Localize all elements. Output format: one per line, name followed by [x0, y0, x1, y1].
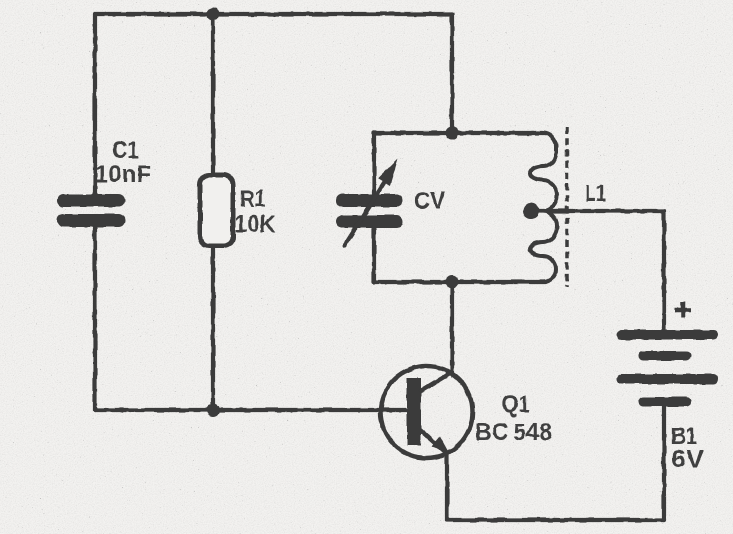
coil core dashed line — [565, 127, 569, 287]
variable capacitor CV arrow — [345, 159, 398, 246]
wire bottom rail — [447, 518, 664, 522]
node junction tank top — [446, 127, 459, 140]
transistor Q1 circle — [381, 366, 473, 458]
svg-text:10K: 10K — [235, 211, 277, 238]
svg-text:10nF: 10nF — [95, 161, 151, 188]
wire base horizontal — [95, 408, 408, 412]
wire top rail — [95, 12, 452, 16]
transistor Q1 collector stroke — [419, 372, 452, 392]
node junction base wire / R1 — [207, 404, 220, 417]
wire tank top — [374, 131, 543, 135]
wire tank left vertical lower (CV bottom lead) — [372, 229, 376, 282]
transistor Q1 emitter stroke — [419, 429, 446, 453]
transistor Q1 emitter arrowhead — [432, 437, 450, 454]
wire battery negative lead — [662, 405, 666, 520]
node coil tap — [523, 203, 539, 219]
battery B1 plates — [617, 330, 718, 407]
variable capacitor CV plates — [336, 194, 403, 228]
svg-text:R1: R1 — [240, 186, 266, 213]
wire R1 top lead — [211, 14, 215, 175]
svg-text:C1: C1 — [112, 137, 139, 164]
wire battery positive lead — [662, 211, 666, 332]
battery B1 plus sign — [675, 302, 691, 318]
inductor L1 coil — [530, 133, 557, 282]
node junction tank bottom — [446, 276, 459, 289]
wire tank left vertical upper (CV top lead) — [372, 133, 376, 194]
wire emitter vertical — [445, 455, 449, 520]
wire coil tap to battery — [536, 209, 664, 213]
svg-text:L1: L1 — [585, 180, 606, 207]
svg-text:CV: CV — [414, 188, 445, 215]
svg-text:Q1: Q1 — [502, 391, 530, 418]
wire top-right vertical — [450, 14, 454, 133]
resistor R1 body — [200, 175, 233, 246]
svg-text:6V: 6V — [671, 446, 704, 473]
transistor Q1 base bar — [407, 378, 421, 445]
svg-text:BC 548: BC 548 — [475, 419, 552, 446]
capacitor C1 plates — [57, 194, 125, 227]
node junction top rail / R1 — [207, 8, 220, 21]
wire left vertical upper (C1 top lead) — [93, 14, 97, 194]
wire R1 bottom lead — [211, 246, 215, 410]
wire collector vertical — [450, 282, 454, 372]
wire tank bottom — [374, 280, 545, 284]
wire left vertical lower (C1 bottom lead) — [93, 228, 97, 410]
